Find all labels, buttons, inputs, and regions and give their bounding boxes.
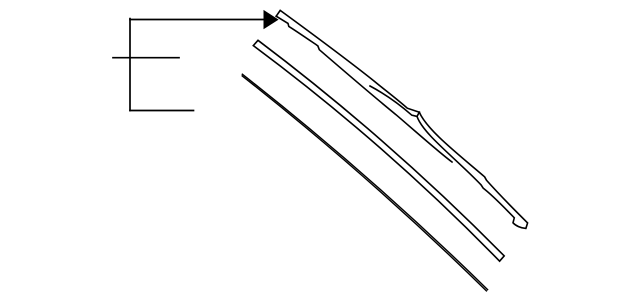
wiper blade assembly: top edge, spoiler step, ledge and end-face line [276,10,419,116]
rubber insert: upper line [242,74,487,289]
callout leader: arrow shaft [130,19,265,21]
wiper refill backing strip [253,40,504,261]
rubber insert: lower line [242,76,486,291]
callout leader: arrowhead [264,10,279,29]
wiper blade assembly: bottom edge with two jogs [276,16,452,162]
callout leader: crossbar tick [113,57,179,59]
callout leader: vertical line [129,19,131,111]
wiper blade assembly: neck upper edge, step, hook tip, neck lower edge [417,112,528,228]
callout leader: bottom bar [130,110,194,112]
